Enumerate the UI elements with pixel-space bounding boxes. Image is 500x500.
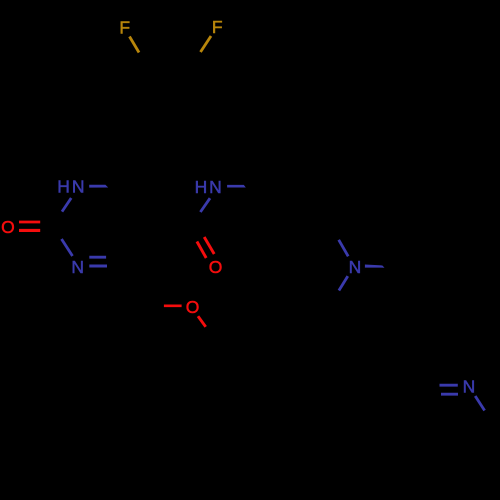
bond N-CH2 chain (half, blue, tapered) bbox=[227, 185, 246, 188]
bond N-CH2 down (half, blue) bbox=[339, 276, 348, 290]
bond N-C pyridine (half, blue) bbox=[475, 396, 484, 411]
svg-text:O: O bbox=[209, 257, 223, 277]
bond C2-N3 (half, blue) bbox=[62, 239, 73, 256]
double bond C=O amide (half, red) bbox=[197, 242, 206, 259]
svg-text:N: N bbox=[463, 377, 476, 397]
svg-text:F: F bbox=[119, 18, 130, 38]
svg-text:F: F bbox=[212, 17, 223, 37]
svg-text:O: O bbox=[186, 297, 200, 317]
bond C-F2 (half, gold) bbox=[201, 36, 212, 52]
bond CH3-O (half, red) bbox=[164, 304, 182, 307]
bond N-CH2 right (half, blue, tapered) bbox=[365, 265, 385, 268]
svg-text:H: H bbox=[195, 177, 208, 197]
double bond N3=C4 (half, blue) bbox=[89, 256, 106, 259]
bond C-F1 (half, gold) bbox=[130, 37, 140, 53]
bond N-C(=O) amide (half, blue) bbox=[200, 198, 210, 212]
svg-text:N: N bbox=[72, 177, 85, 197]
bond N1-C6 (half, blue, tapered) bbox=[89, 185, 108, 188]
bond chain-N (half, blue) bbox=[339, 240, 349, 256]
svg-text:O: O bbox=[1, 217, 15, 237]
svg-text:N: N bbox=[209, 177, 222, 197]
bond N1-C2 (half, blue) bbox=[62, 198, 71, 212]
bond O-CH2 (half, red) bbox=[198, 316, 206, 327]
svg-text:H: H bbox=[57, 177, 70, 197]
svg-text:N: N bbox=[349, 257, 362, 277]
double bond C2=O (half, red) bbox=[19, 221, 40, 224]
double bond C=N pyridine (half, blue) bbox=[440, 384, 458, 387]
svg-text:N: N bbox=[71, 257, 84, 277]
